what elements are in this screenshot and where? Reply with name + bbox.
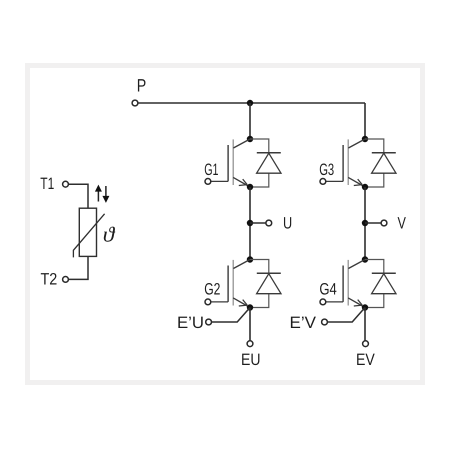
node Q2 collector junction: [247, 256, 253, 262]
wire Q4 emitter to EV terminal: [364, 308, 366, 341]
svg-text:EV: EV: [356, 351, 375, 369]
svg-text:U: U: [283, 214, 292, 232]
wire P rail to Q1 collector: [249, 103, 251, 139]
thermistor R(T) body: [79, 208, 96, 256]
node T2 terminal: [63, 277, 69, 283]
diode D3: [365, 139, 396, 187]
node Q2 emitter junction: [247, 304, 253, 310]
svg-text:G2: G2: [204, 281, 220, 299]
svg-text:V: V: [398, 214, 406, 232]
svg-text:P: P: [137, 76, 147, 96]
transistor Q1 IGBT: [211, 139, 250, 187]
wire T2 to thermistor: [69, 256, 88, 279]
svg-text:G4: G4: [319, 281, 336, 299]
wire Q1 emitter to U node: [249, 187, 251, 260]
diode D1: [250, 139, 281, 187]
gate G4 terminal: [320, 299, 326, 305]
svg-text:ϑ: ϑ: [103, 223, 116, 247]
transistor Q2 IGBT: [211, 260, 250, 308]
diode D2: [250, 260, 281, 308]
node P terminal: [132, 100, 138, 106]
gate G1 terminal: [205, 179, 211, 185]
svg-text:EU: EU: [241, 351, 261, 369]
node Q4 emitter junction: [362, 304, 368, 310]
wire E'U to Q2 emitter: [212, 308, 250, 323]
transistor Q3 IGBT: [326, 139, 365, 187]
arrow down: [105, 186, 107, 197]
node EU terminal: [247, 341, 253, 347]
wire U tap: [250, 222, 266, 224]
wire T1 to thermistor: [69, 184, 88, 208]
node T1 terminal: [63, 181, 69, 187]
gate G2 terminal: [205, 299, 211, 305]
svg-text:E’U: E’U: [177, 314, 204, 332]
svg-text:G1: G1: [204, 161, 218, 179]
wire Q2 emitter to EU terminal: [249, 308, 251, 341]
svg-text:E’V: E’V: [290, 314, 317, 332]
wire P rail down to Q3 collector: [364, 103, 366, 139]
wire Q3 emitter to V node: [364, 187, 366, 260]
node V terminal: [381, 220, 387, 226]
svg-text:G3: G3: [319, 161, 334, 179]
svg-text:T1: T1: [40, 175, 54, 193]
gate G3 terminal: [320, 179, 326, 185]
wire E'V to Q4 emitter: [328, 308, 365, 323]
junction on P rail: [247, 100, 253, 106]
node Q3 collector junction: [362, 136, 368, 142]
wire P rail: [138, 102, 365, 104]
arrow up: [97, 191, 99, 202]
diode D4: [365, 260, 396, 308]
node Q1 collector junction: [247, 136, 253, 142]
node Q3 emitter junction: [362, 184, 368, 190]
svg-text:T2: T2: [41, 271, 58, 289]
node E'U terminal: [206, 319, 212, 325]
node Q1 emitter junction: [247, 184, 253, 190]
node U junction: [247, 220, 253, 226]
node E'V terminal: [322, 319, 328, 325]
node EV terminal: [363, 341, 369, 347]
wire V tap: [365, 222, 381, 224]
thermistor diagonal: [73, 214, 104, 258]
transistor Q4 IGBT: [326, 260, 365, 308]
node V junction: [362, 220, 368, 226]
node Q4 collector junction: [362, 256, 368, 262]
node U terminal: [266, 220, 272, 226]
